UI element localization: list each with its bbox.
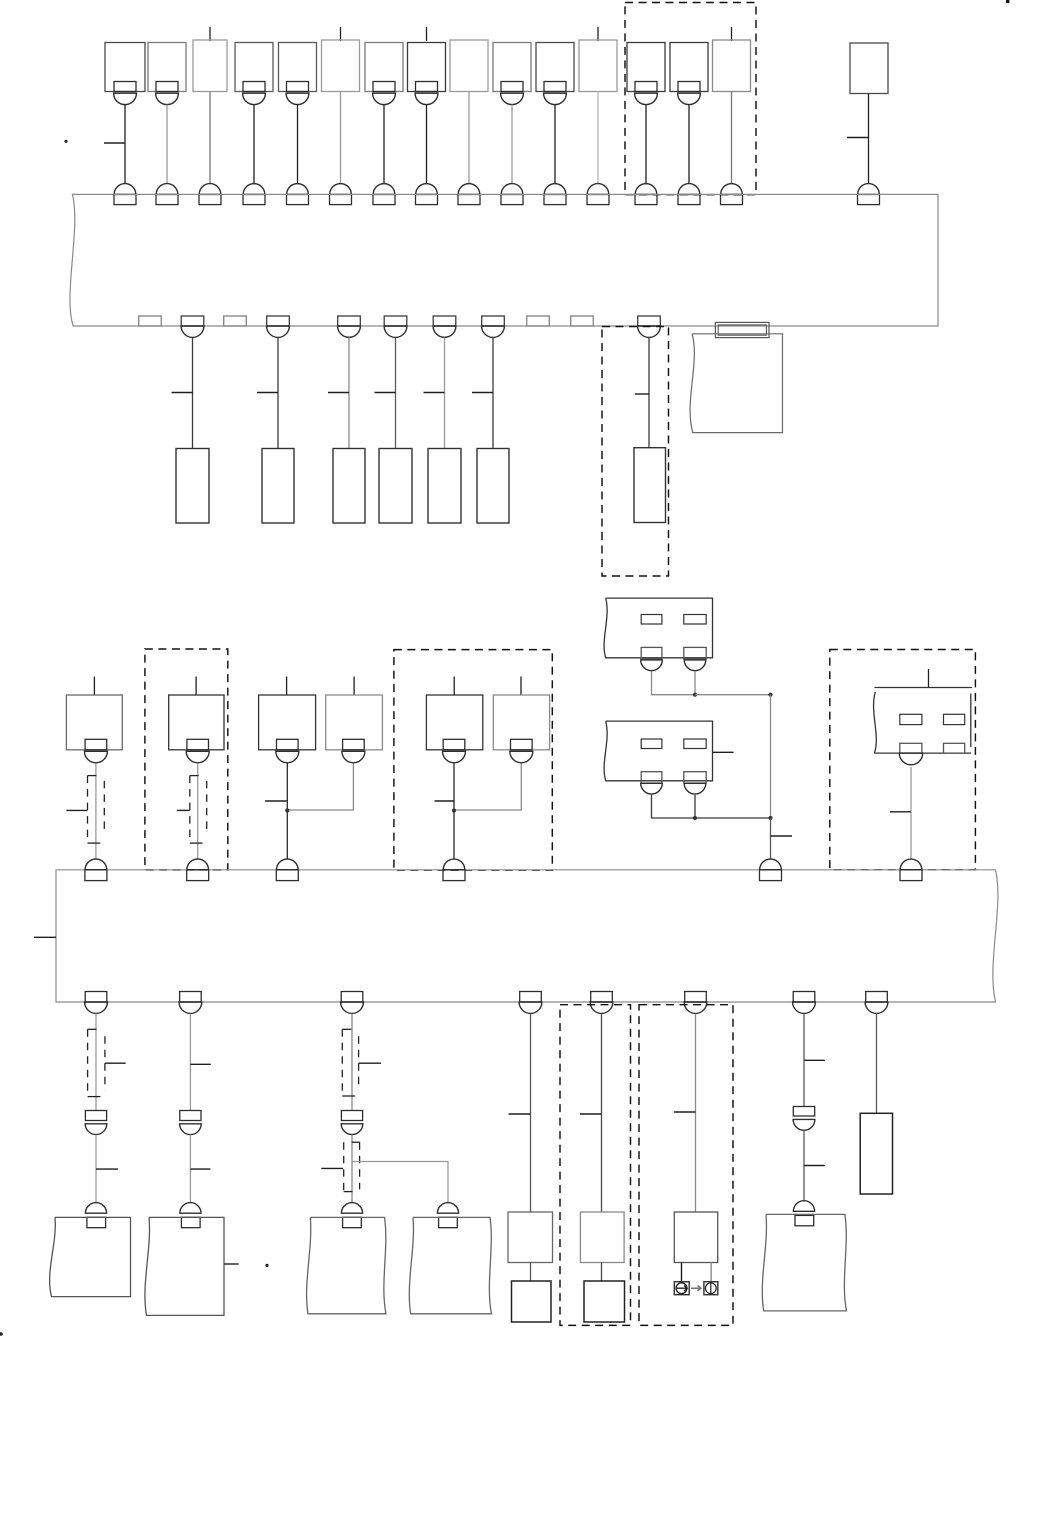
wire stub above component ME [453, 677, 455, 696]
bus connector dome for F15 [721, 184, 743, 195]
component H1a box [512, 1281, 552, 1322]
stub terminal on bus 2 left side [34, 936, 56, 938]
bus 1 bottom connector pad T4 [384, 316, 407, 326]
bus connector pad for F12 [587, 194, 609, 204]
wire from bus 2 to load G5 (upper segment) [803, 1014, 805, 1107]
relay K2 terminal pad 1 [641, 772, 662, 783]
load G2 connector dome [180, 1203, 201, 1214]
terminal tick on wire H1 [509, 1113, 531, 1115]
stray mark [64, 140, 67, 143]
bus 2 bottom connector socket V7 [793, 1002, 816, 1013]
wire from relay K2 pin 1 [652, 795, 696, 818]
relay K1 terminal pad 2 [684, 647, 706, 658]
wire stub above fuse F3 [209, 27, 211, 41]
load G4 box (continued) [409, 1217, 491, 1313]
component MC socket [276, 751, 299, 763]
wire from MB to bus 2 [197, 763, 199, 859]
component E4 [379, 449, 412, 524]
fuse F2 [148, 43, 186, 92]
terminal tick on wire E2 [257, 392, 278, 394]
dashed enclosure around component MB [145, 649, 228, 870]
component H1 box [508, 1212, 553, 1263]
bus connector pad for F4 [243, 194, 265, 204]
fuse F13 socket [635, 93, 658, 104]
bus connector pad for B16 [858, 194, 880, 204]
terminal tick on wire G5 lower [804, 1165, 825, 1167]
bus connector dome for F13 [635, 184, 657, 195]
wire from fuse F3 to bus [209, 92, 211, 184]
bus 2 bottom connector socket V2 [179, 1002, 202, 1013]
relay K3 terminal pad 1 [900, 743, 922, 753]
dashed enclosure around component E7 [602, 327, 669, 577]
wire from connector to load G5 (lower segment) [803, 1130, 805, 1201]
terminal tick on wire G3 lower [321, 1167, 343, 1169]
bus 2 top connector pad U3 [276, 870, 298, 881]
fuse F14 terminal pad [678, 82, 700, 92]
bus connector pad for F5 [287, 194, 309, 204]
terminal tick on wire E7 [635, 393, 649, 395]
inline connector pad on wire G1 [85, 1111, 106, 1121]
terminal tick on wire E4 [375, 392, 396, 394]
arrow between indicator icons [691, 1286, 701, 1291]
wire stub above fuse F6 [340, 27, 342, 41]
inline connector socket on wire G2 [180, 1124, 202, 1135]
wire segment to node X2 [695, 817, 771, 819]
fuse F7 terminal pad [373, 82, 395, 92]
wire from bus 1 to component E6 [492, 338, 494, 449]
wire from bus 2 to resistor R1 [876, 1014, 878, 1114]
terminal tick on wire G1 lower [96, 1168, 118, 1170]
wire from connector to load G2 (lower segment) [189, 1135, 191, 1204]
bus 2 bottom connector pad V3 [341, 992, 363, 1003]
fuse F1 [105, 43, 145, 92]
bus 2 bottom connector pad V8 [866, 992, 888, 1003]
stray mark left edge [0, 1332, 3, 1336]
shield (screen) around wire G3 lower [343, 1142, 345, 1191]
component ME box [426, 695, 482, 750]
bus 1 bottom connector socket T3 [338, 326, 361, 337]
wire from bus 2 to load G1 (upper segment) [95, 1014, 97, 1111]
relay K3 socket [899, 753, 922, 765]
unused terminal pad on bus 1 [224, 316, 247, 326]
bus 2 top connector dome U4 [443, 859, 465, 870]
bus 2 bottom connector socket V5 [590, 1002, 613, 1013]
component H2 box [580, 1212, 624, 1263]
fuse F6 [322, 40, 360, 92]
fuse F11 [536, 43, 574, 92]
wire from fuse F2 to bus [166, 105, 168, 184]
wire from bus 1 to component E7 [648, 338, 650, 448]
component MF box [493, 695, 549, 750]
bus 2 bottom connector pad V5 [591, 992, 613, 1003]
bus 2 top connector dome U1 [85, 859, 107, 870]
bus 2 bottom connector socket V4 [519, 1002, 542, 1013]
relay K2 terminal pad 2 [684, 772, 706, 783]
fuse F1 socket [114, 93, 137, 104]
bus 2 top connector pad U4 [443, 870, 465, 881]
fuse F1 terminal pad [114, 82, 136, 92]
dashed enclosure around fuses F13-F15 [625, 3, 756, 195]
fuse F7 socket [373, 93, 396, 104]
load G1 connector pad [87, 1217, 106, 1227]
unused terminal pad on bus 1 [571, 316, 594, 326]
bus 2 bottom connector socket V3 [341, 1002, 364, 1013]
wire stub above fuse F15 [731, 27, 733, 41]
relay K1 internal contact b [684, 615, 706, 625]
bus 2 bottom connector socket V6 [684, 1002, 707, 1013]
bus connector dome for F6 [330, 184, 352, 195]
bus connector dome for F5 [287, 184, 309, 195]
terminal tick on wire E5 [424, 392, 445, 394]
load G1 box (continued) [50, 1217, 131, 1296]
component MB socket [186, 751, 209, 763]
component H3 box [674, 1212, 717, 1263]
fuse F7 [365, 43, 403, 92]
wire from H3 to indicator icon A [681, 1263, 683, 1282]
dashed enclosure around components ME and MF [394, 650, 552, 871]
bus connector pad for F13 [635, 194, 657, 204]
fuse F3 [193, 40, 227, 92]
bus 1 bottom connector pad T1 [181, 316, 204, 326]
component MC box [259, 695, 316, 750]
bus connector dome for F1 [114, 184, 136, 195]
junction node relay K1 wires [693, 693, 697, 697]
bus 2 top connector pad U5 [760, 870, 782, 881]
component MD socket [342, 751, 365, 763]
component MA box [66, 695, 122, 750]
wire from bus 1 to component E1 [192, 338, 194, 449]
relay K1 socket 1 [641, 660, 663, 671]
bus connector pad for F6 [330, 194, 352, 204]
wire from H1 to H1a [530, 1263, 532, 1282]
load G3 box (continued) [307, 1217, 386, 1313]
load G2 box (continued) [145, 1217, 224, 1315]
relay K1 socket 2 [684, 660, 706, 671]
load G4 connector pad [439, 1217, 458, 1227]
bus 1 bottom connector socket T6 [482, 326, 505, 337]
stray mark right of G2 [265, 1264, 268, 1267]
bus 2 bottom connector pad V4 [520, 992, 542, 1003]
bus 2 top connector pad U1 [85, 870, 107, 881]
component E1 [176, 449, 209, 524]
component E5 [428, 449, 461, 524]
wire from relay K1 pin 2 [694, 671, 696, 694]
fuse F13 [627, 43, 665, 92]
wire stub above component MF [520, 677, 522, 696]
relay K2 socket 2 [684, 783, 706, 794]
bus connector pad for F10 [501, 194, 523, 204]
relay K3 internal contact a [900, 714, 922, 724]
central electronics bus box 2 [56, 870, 998, 1002]
bus 1 bottom connector socket T5 [433, 326, 456, 337]
relay K1 internal contact a [641, 615, 662, 625]
component E6 [477, 449, 509, 524]
wire from MC to bus 2 [286, 763, 288, 859]
fuse F12 [579, 40, 617, 92]
load G5 box (continued) [762, 1214, 846, 1311]
terminal tick on wire H3 [674, 1111, 696, 1113]
wire stub above component MB [195, 677, 197, 696]
bus connector dome for F11 [544, 184, 566, 195]
wire stub above relay K3 [928, 669, 930, 688]
bus 2 bottom connector pad V6 [685, 992, 707, 1003]
load G5 connector pad [795, 1215, 814, 1225]
component MB terminal pad [187, 739, 209, 750]
bus connector dome for F9 [458, 184, 480, 195]
wire stub above component MA [93, 677, 95, 696]
wire from bus 2 to component H1 [530, 1014, 532, 1213]
junction of ME and MF wires [452, 808, 456, 812]
terminal tick on wire MA [66, 809, 87, 811]
terminal tick on wire E6 [472, 392, 493, 394]
vertical wire from node X1 down [770, 695, 772, 818]
fuse F4 socket [243, 93, 266, 104]
terminal tick on wire MC [265, 800, 287, 802]
shield (screen) around wire G3 upper [341, 1029, 343, 1096]
wire stub above component MD [353, 677, 355, 696]
terminal tick on wire G1 upper [105, 1062, 126, 1064]
component ME socket [443, 751, 466, 763]
fuse F8 terminal pad [416, 82, 438, 92]
wire from relay K2 pin 2 [694, 795, 696, 818]
component E3 [333, 449, 365, 524]
bus 2 bottom connector pad V7 [793, 992, 815, 1003]
fuse F8 [408, 43, 446, 92]
wire from fuse F8 to bus [426, 105, 428, 184]
component MC terminal pad [277, 739, 299, 750]
terminal tick on wire G2 upper [190, 1063, 210, 1065]
bus connector pad for F8 [416, 194, 438, 204]
fuse F15 [713, 40, 751, 92]
component MA socket [84, 751, 107, 762]
bus 2 top connector dome U3 [277, 859, 299, 870]
inline connector pad on wire G3 [341, 1111, 362, 1121]
bus connector dome for F14 [678, 184, 700, 195]
wire from connector to load G1 (lower segment) [95, 1135, 97, 1204]
shield (screen) around wire MB [189, 776, 191, 844]
fuse F4 terminal pad [243, 82, 265, 92]
inline connector socket on wire G1 [85, 1124, 107, 1135]
fuse F11 terminal pad [544, 82, 566, 92]
terminal tick on X2 wire [771, 835, 793, 837]
bus connector dome for F8 [416, 184, 438, 195]
relay K3 terminal pad 2 [944, 743, 965, 753]
relay K1 terminal pad 1 [641, 647, 662, 658]
bus connector dome for F7 [373, 184, 395, 195]
wire from MF to junction [454, 763, 521, 810]
wire from fuse F6 to bus [340, 92, 342, 184]
wire from fuse F13 to bus [645, 105, 647, 184]
bus 1 bottom connector pad T2 [267, 316, 290, 326]
relay module K1 box (continued) [604, 598, 712, 658]
wire from ME to bus 2 [453, 763, 455, 859]
component MF socket [510, 751, 533, 763]
unused terminal pad on bus 1 [527, 316, 550, 326]
indicator icon B symbol (lamp) [705, 1283, 716, 1294]
bus 1 bottom connector pad T6 [482, 316, 505, 326]
wire from bus 2 to load G3 (upper segment) [351, 1014, 353, 1111]
wire from fuse F1 to bus [124, 105, 126, 184]
wire from fuse F10 to bus [511, 105, 513, 184]
shield (screen) around wire MA [87, 776, 89, 844]
bus connector pad for F15 [721, 194, 743, 204]
wire from bus 1 to component E4 [395, 338, 397, 449]
terminal tick on wire G3 upper [359, 1062, 381, 1064]
stub terminal on load G2 right side [224, 1263, 239, 1265]
bus 1 bottom connector socket T2 [267, 326, 290, 337]
fuse F2 terminal pad [156, 82, 178, 92]
bus connector dome for F3 [199, 184, 221, 195]
wire from H2 to H2a [601, 1263, 603, 1282]
relay plate connector strip (outer) [715, 322, 769, 337]
terminal tick on wire ME [435, 800, 454, 802]
wire from bus 1 to component E3 [348, 338, 350, 449]
dashed enclosure around H3 column [639, 1005, 733, 1326]
junction node X2 [768, 816, 772, 820]
bus connector pad for F2 [156, 194, 178, 204]
bus 2 top connector dome U2 [187, 859, 209, 870]
relay plate box (continued) [690, 334, 782, 433]
wire from fuse F15 to bus [731, 92, 733, 184]
fuse F11 socket [544, 93, 567, 104]
junction of MC and MD wires [285, 808, 289, 812]
component MD box [326, 695, 383, 750]
component B16 box [850, 43, 888, 94]
wire from MD to junction [287, 763, 353, 810]
bus connector dome for B16 [858, 184, 880, 195]
wire from fuse F4 to bus [253, 105, 255, 184]
fuse F5 [279, 43, 317, 92]
bus 1 bottom connector socket T4 [384, 326, 407, 337]
bus 1 bottom connector socket T7 [638, 326, 661, 337]
wire from connector to load G3 (lower segment) [351, 1135, 353, 1204]
relay K2 internal contact b [684, 739, 706, 749]
bus 1 bottom connector pad T7 [638, 316, 661, 326]
inline connector socket on wire G3 [341, 1124, 363, 1135]
bus connector dome for F12 [587, 184, 609, 195]
fuse F8 socket [415, 93, 438, 104]
indicator icon B frame [704, 1282, 718, 1295]
component MD terminal pad [343, 739, 365, 750]
wire bus segment to node X1 [695, 694, 771, 696]
bus connector pad for F7 [373, 194, 395, 204]
junction node relay K2 wires [693, 816, 697, 820]
bus 2 bottom connector socket V8 [865, 1002, 888, 1013]
component E7 [634, 448, 666, 523]
terminal tick on F1 wire [104, 142, 125, 144]
component MA terminal pad [85, 739, 107, 750]
component MB box [169, 695, 224, 750]
load G3 connector pad [343, 1217, 362, 1227]
bus connector dome for F10 [501, 184, 523, 195]
central electronics bus box 1 [70, 194, 938, 326]
relay K2 socket 1 [641, 783, 663, 794]
terminal tick on wire G2 lower [190, 1168, 210, 1170]
fuse F5 socket [286, 93, 309, 104]
fuse F5 terminal pad [287, 82, 309, 92]
bus 2 bottom connector pad V1 [85, 992, 107, 1003]
wire from bus 1 to component E5 [444, 338, 446, 449]
bus connector pad for F14 [678, 194, 700, 204]
bus 2 bottom connector socket V1 [85, 1002, 108, 1013]
resistor R1 box [860, 1113, 892, 1194]
indicator icon A frame [674, 1282, 689, 1295]
wire stub above fuse F12 [597, 27, 599, 41]
fuse F10 socket [501, 93, 524, 104]
load G4 connector dome [437, 1203, 458, 1214]
terminal tick on wire E3 [328, 392, 349, 394]
component E2 [262, 449, 294, 524]
wire from fuse F14 to bus [688, 105, 690, 184]
wire from H3 to indicator icon B [710, 1263, 712, 1282]
inline connector socket on wire G5 [793, 1119, 815, 1130]
terminal tick on wire H2 [580, 1113, 602, 1115]
shield (screen) around wire G1 [87, 1029, 89, 1096]
dashed enclosure around H2 column [560, 1005, 631, 1326]
inline connector pad on wire G5 [793, 1107, 814, 1117]
bus 1 bottom connector pad T3 [338, 316, 361, 326]
wire from fuse F9 to bus [468, 92, 470, 184]
bus 1 bottom connector socket T1 [181, 326, 204, 337]
fuse F14 [670, 43, 708, 92]
relay K2 internal contact a [641, 739, 662, 749]
fuse F13 terminal pad [635, 82, 657, 92]
wire from bus 1 to component E2 [277, 338, 279, 449]
junction node X1 [768, 693, 772, 697]
bus 2 top connector pad U2 [187, 870, 209, 881]
load G1 connector dome [85, 1203, 106, 1214]
bus connector pad for F3 [199, 194, 221, 204]
fuse F10 [493, 43, 531, 92]
wire from fuse F5 to bus [297, 105, 299, 184]
indicator icon A symbol (circle with arrow) [676, 1285, 687, 1291]
wire from fuse F7 to bus [383, 105, 385, 184]
branch wire from G3 to load G4 [352, 1162, 448, 1204]
unused terminal pad on bus 1 [139, 316, 162, 326]
wire from relay K3 to bus 2 [910, 767, 912, 859]
fuse F14 socket [678, 93, 701, 104]
bus connector pad for F9 [458, 194, 480, 204]
inline connector pad on wire G2 [180, 1111, 201, 1121]
bus connector dome for F2 [156, 184, 178, 195]
bus connector pad for F1 [114, 194, 136, 204]
wire stub above fuse F8 [426, 27, 428, 41]
wire from bus 2 to component H2 [601, 1014, 603, 1213]
wire from B16 to bus [868, 94, 870, 184]
fuse F10 terminal pad [501, 82, 523, 92]
component H2a box [584, 1281, 625, 1322]
bus 1 bottom connector pad T5 [433, 316, 456, 326]
relay plate connector strip (inner) [718, 325, 766, 335]
fuse F9 [450, 40, 488, 92]
dashed enclosure around relay K3 [830, 650, 976, 870]
wire from node X2 to bus 2 [770, 818, 772, 859]
terminal tick on wire G5 upper [804, 1059, 825, 1061]
fuse F4 [235, 43, 273, 92]
relay module K2 box (continued) [604, 721, 712, 781]
component MF terminal pad [511, 739, 533, 750]
wire from fuse F11 to bus [554, 105, 556, 184]
stub terminal on relay K2 right side [713, 751, 734, 753]
load G5 connector dome [793, 1201, 814, 1212]
stray mark top edge [1006, 0, 1009, 3]
load G2 connector pad [181, 1217, 200, 1227]
terminal tick on wire E1 [172, 392, 193, 394]
wire from MA to bus 2 [95, 763, 97, 859]
wire stub above component MC [286, 677, 288, 696]
relay module K3 box (continued) [874, 688, 972, 754]
bus 2 top connector dome U5 [760, 859, 782, 870]
